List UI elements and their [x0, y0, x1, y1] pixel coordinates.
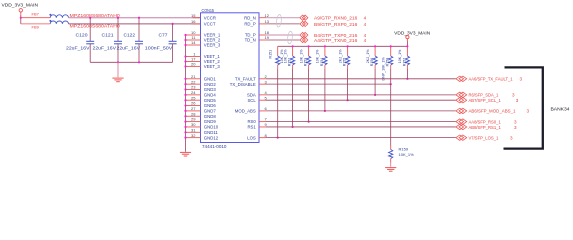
diff pair symbol (RX) — [276, 14, 282, 27]
node rail junction R153 — [308, 45, 310, 47]
svg-text:AB6/SFP_MOD_ABS_1: AB6/SFP_MOD_ABS_1 — [469, 109, 516, 114]
port SFP_RS1_1 — [456, 124, 467, 129]
node R156 bottom junction — [374, 94, 376, 96]
svg-text:GND8: GND8 — [204, 114, 217, 119]
node R154 bottom junction — [324, 110, 326, 112]
pin 11 VEER_2 — [186, 35, 221, 43]
svg-text:19: 19 — [265, 35, 270, 40]
svg-text:GND3: GND3 — [204, 87, 217, 92]
pin 14 VEER_3 — [186, 40, 221, 48]
pin 26 GND6 — [186, 101, 217, 109]
node bus junction VEET_2 — [184, 60, 186, 62]
svg-text:3: 3 — [527, 109, 530, 114]
wire pull-up rail — [278, 45, 408, 47]
pin 23 GND3 — [186, 85, 217, 93]
port SFP_LOS_1 — [456, 135, 467, 140]
ferrite bead FB7 — [32, 12, 69, 18]
svg-text:31: 31 — [191, 127, 196, 132]
wire SFP_TX_DISABLE rail — [266, 83, 391, 85]
svg-text:VEET_3: VEET_3 — [204, 64, 221, 69]
node bus junction VEET_3 — [184, 65, 186, 67]
svg-text:23: 23 — [191, 85, 196, 90]
svg-text:10K_1%: 10K_1% — [399, 152, 415, 157]
wire capacitor ground bus — [90, 61, 172, 63]
svg-text:C120: C120 — [76, 32, 89, 37]
node bus junction VEER_2 — [184, 39, 186, 41]
svg-text:4: 4 — [364, 38, 367, 43]
svg-text:3: 3 — [516, 98, 519, 103]
svg-text:AB8/SFP_RS1_1: AB8/SFP_RS1_1 — [469, 125, 502, 130]
resistor R155 2K2_1% pull-up — [338, 46, 349, 100]
pin 29 GND9 — [186, 117, 217, 125]
svg-text:13: 13 — [265, 19, 270, 24]
svg-text:3: 3 — [512, 93, 515, 98]
node bus junction GND4 — [184, 94, 186, 96]
pin 8 LOS — [247, 133, 267, 141]
svg-text:R157: R157 — [402, 58, 406, 67]
power flag VDD_3V3_MAIN (right) — [394, 30, 430, 41]
pin 20 VEET_3 — [186, 62, 221, 70]
resistor R158 DNP_10K_1% pull-up — [381, 46, 392, 84]
svg-text:29: 29 — [191, 117, 196, 122]
port SFP_TX_FAULT_1 — [456, 76, 467, 81]
svg-text:74441-0010: 74441-0010 — [202, 144, 227, 149]
port SFP_SCL_1 — [456, 98, 467, 103]
svg-text:BANK34: BANK34 — [551, 107, 570, 113]
wire VEE/GND bus — [185, 35, 187, 152]
wire SFP_MOD_ABS_1 rail — [266, 110, 456, 112]
pin 1 VEET_1 — [186, 52, 221, 60]
svg-text:R159: R159 — [399, 146, 409, 151]
pin 12 RD_N — [244, 13, 270, 21]
ground (R159) — [385, 163, 396, 172]
svg-text:26: 26 — [191, 101, 196, 106]
node bus junction VEET_1 — [184, 55, 186, 57]
svg-text:4: 4 — [364, 22, 367, 27]
node rail junction R154 — [324, 45, 326, 47]
diff pair symbol (TX) — [287, 31, 293, 44]
svg-text:SDA: SDA — [247, 92, 256, 97]
svg-text:VDD_3V3_MAIN: VDD_3V3_MAIN — [394, 30, 430, 35]
svg-text:R154: R154 — [320, 58, 324, 67]
pin 32 GND12 — [186, 133, 219, 141]
node R152 bottom junction — [292, 126, 294, 128]
svg-text:CON15: CON15 — [202, 8, 215, 13]
node bus junction GND6 — [184, 104, 186, 106]
svg-text:AA6/SFP_TX_FAULT_1: AA6/SFP_TX_FAULT_1 — [469, 77, 513, 82]
svg-text:R158: R158 — [386, 58, 390, 67]
pin 31 GND11 — [186, 127, 219, 135]
svg-text:A9/GTP_RXN0_216: A9/GTP_RXN0_216 — [314, 16, 358, 21]
svg-text:C122: C122 — [124, 32, 136, 37]
node R153 bottom junction — [308, 121, 310, 123]
svg-text:GND11: GND11 — [204, 130, 219, 135]
svg-text:22uF_16V: 22uF_16V — [66, 45, 90, 50]
node R157 bottom junction — [406, 78, 408, 80]
node bus junction VEER_3 — [184, 44, 186, 46]
pin 19 TD_N — [245, 35, 270, 43]
svg-text:20: 20 — [191, 62, 196, 67]
pin 7 RS0 — [247, 117, 267, 125]
pin 27 GND7 — [186, 106, 217, 114]
svg-text:C77: C77 — [159, 32, 169, 37]
pin 4 SDA — [247, 90, 268, 98]
svg-text:10K_1%: 10K_1% — [299, 49, 303, 63]
node rail junction R156 — [374, 45, 376, 47]
svg-text:SCL: SCL — [247, 98, 256, 103]
pin 15 VCCR — [191, 13, 216, 21]
node rail junction R155 — [347, 45, 349, 47]
svg-text:R152: R152 — [288, 58, 292, 67]
pin 21 GND1 — [186, 74, 217, 82]
svg-text:DNP_10K_1%: DNP_10K_1% — [381, 57, 385, 81]
pin 5 SCL — [247, 95, 267, 103]
svg-text:24: 24 — [191, 90, 196, 95]
svg-text:10K_1%: 10K_1% — [316, 49, 320, 63]
svg-text:3: 3 — [520, 77, 523, 82]
pin 25 GND5 — [186, 95, 217, 103]
wire SFP_RS0_1 rail — [266, 121, 456, 123]
port GTP_RXP0_216 — [300, 21, 308, 26]
node R151 bottom junction — [277, 137, 279, 139]
node VDD junction — [20, 17, 22, 19]
node bus junction C121 — [117, 61, 119, 63]
ferrite bead FB9 — [32, 20, 69, 30]
svg-text:100nF_50V: 100nF_50V — [145, 45, 173, 50]
svg-text:V7/SFP_LOS_1: V7/SFP_LOS_1 — [469, 135, 499, 140]
svg-text:GND10: GND10 — [204, 125, 219, 130]
svg-text:2K2_1%: 2K2_1% — [338, 49, 342, 63]
capacitor C77 — [145, 23, 177, 63]
svg-text:TD_N: TD_N — [245, 38, 256, 43]
svg-text:GND2: GND2 — [204, 82, 217, 87]
pin 2 TX_FAULT — [235, 74, 268, 82]
svg-text:GND7: GND7 — [204, 109, 217, 114]
resistor R152 10K_1% pull-up — [283, 46, 294, 127]
svg-text:22: 22 — [191, 79, 196, 84]
svg-text:27: 27 — [191, 106, 196, 111]
node R158 bottom junction — [390, 83, 392, 85]
svg-text:22uF_16V: 22uF_16V — [117, 45, 141, 50]
svg-text:VCCR: VCCR — [204, 15, 216, 20]
svg-text:GND9: GND9 — [204, 119, 217, 124]
node bus junction GND7 — [184, 110, 186, 112]
capacitor C120 — [66, 17, 94, 63]
svg-text:21: 21 — [191, 74, 196, 79]
port SFP_SDA_1 — [456, 92, 467, 97]
svg-text:R153: R153 — [304, 58, 308, 67]
svg-text:VEER_3: VEER_3 — [204, 43, 221, 48]
connector CON15 box — [201, 13, 260, 143]
wire SFP_TX_FAULT_1 rail — [266, 78, 456, 80]
node bus junction GND2 — [184, 83, 186, 85]
svg-text:TX_FAULT: TX_FAULT — [235, 76, 256, 81]
svg-text:30: 30 — [191, 122, 196, 127]
resistor R154 10K_1% pull-up — [316, 46, 327, 111]
svg-text:RD_P: RD_P — [244, 22, 256, 27]
pin 17 VEET_2 — [186, 57, 221, 65]
wire RD_P to port — [266, 23, 300, 25]
pin 28 GND8 — [186, 111, 217, 119]
svg-text:AB7/SFP_SCL_1: AB7/SFP_SCL_1 — [469, 98, 502, 103]
svg-text:R156: R156 — [370, 58, 374, 67]
node bus junction GND5 — [184, 99, 186, 101]
port SFP_MOD_ABS_1 — [456, 108, 467, 113]
svg-text:28: 28 — [191, 111, 196, 116]
node rail junction R152 — [292, 45, 294, 47]
pin 18 TD_P — [245, 30, 270, 38]
pin 22 GND2 — [186, 79, 217, 87]
node bus junction GND10 — [184, 126, 186, 128]
pin 10 VEER_1 — [186, 30, 221, 38]
node bus junction GND12 — [184, 137, 186, 139]
svg-text:25: 25 — [191, 95, 196, 100]
node rail junction R158 — [390, 45, 392, 47]
node bus junction GND1 — [184, 78, 186, 80]
node bus junction VEER_1 — [184, 34, 186, 36]
port SFP_RS0_1 — [456, 119, 467, 124]
wire VDD to FB7 — [21, 17, 50, 19]
FPGA bank bracket BANK34 — [504, 67, 543, 148]
pin 30 GND10 — [186, 122, 219, 130]
svg-text:GND5: GND5 — [204, 98, 217, 103]
svg-text:32: 32 — [191, 133, 196, 138]
svg-text:TX_DISABLE: TX_DISABLE — [230, 82, 256, 87]
ground (capacitor bank) — [112, 62, 123, 81]
svg-text:RS1: RS1 — [247, 125, 256, 130]
ground (CON15 VEE bus) — [180, 152, 191, 156]
wire SFP_SDA_1 rail — [266, 94, 456, 96]
resistor R153 10K_1% pull-up — [299, 46, 310, 121]
node bus junction GND9 — [184, 121, 186, 123]
svg-text:VDD_3V3_MAIN: VDD_3V3_MAIN — [2, 3, 39, 8]
svg-text:2K2_1%: 2K2_1% — [366, 49, 370, 63]
svg-text:A4/GTP_TXN0_216: A4/GTP_TXN0_216 — [314, 38, 358, 43]
svg-text:MOD_ABS: MOD_ABS — [235, 109, 256, 114]
resistor R156 2K2_1% pull-up — [366, 46, 377, 95]
power flag VDD_3V3_MAIN (left) — [2, 3, 39, 15]
node R155 bottom junction — [347, 99, 349, 101]
svg-text:22uF_16V: 22uF_16V — [93, 45, 117, 50]
wire VDD stem to rail — [406, 42, 408, 47]
port GTP_TXP0_216 — [300, 32, 308, 37]
svg-text:12: 12 — [265, 13, 270, 18]
svg-text:10K_1%: 10K_1% — [283, 49, 287, 63]
capacitor C121 — [93, 17, 123, 63]
svg-text:3: 3 — [514, 119, 517, 124]
node bus junction GND8 — [184, 115, 186, 117]
svg-text:15: 15 — [191, 13, 196, 18]
wire VDD to FB9 — [21, 23, 50, 25]
capacitor C122 — [117, 17, 144, 63]
pin 3 TX_DISABLE — [230, 79, 268, 87]
wire SFP_RS1_1 rail — [266, 126, 456, 128]
svg-text:FB9: FB9 — [32, 25, 40, 30]
svg-text:4: 4 — [364, 16, 367, 21]
pin 6 MOD_ABS — [235, 106, 268, 114]
svg-text:GND1: GND1 — [204, 76, 217, 81]
svg-text:10K_1%: 10K_1% — [398, 49, 402, 63]
svg-text:3: 3 — [514, 125, 517, 130]
port GTP_TXN0_216 — [300, 37, 308, 42]
svg-text:LOS: LOS — [247, 135, 256, 140]
svg-text:FB7: FB7 — [32, 12, 40, 17]
svg-text:14: 14 — [191, 40, 196, 45]
svg-text:B9/GTP_RXP0_216: B9/GTP_RXP0_216 — [314, 22, 358, 27]
pin 9 RS1 — [247, 122, 267, 130]
wire VCCR net to CON15 pin 15 — [69, 17, 201, 19]
svg-text:RD_N: RD_N — [244, 15, 256, 20]
node rail junction R157 — [406, 45, 408, 47]
svg-text:MPZ1608S680ATAH0: MPZ1608S680ATAH0 — [70, 24, 121, 29]
wire SFP_LOS_1 rail — [266, 137, 456, 139]
svg-text:GND4: GND4 — [204, 92, 217, 97]
wire VCCT net to CON15 pin 16 — [69, 23, 201, 25]
wire TD_P to port — [266, 34, 300, 36]
svg-text:C121: C121 — [102, 32, 115, 37]
resistor R159 10K_1% pulldown — [389, 84, 414, 162]
svg-text:R155: R155 — [343, 58, 347, 67]
pin 13 RD_P — [244, 19, 269, 27]
node bus junction GND11 — [184, 131, 186, 133]
svg-text:VCCT: VCCT — [204, 22, 216, 27]
port GTP_RXN0_216 — [300, 15, 308, 20]
svg-text:GND12: GND12 — [204, 135, 219, 140]
wire SFP_SCL_1 rail — [266, 99, 456, 101]
wire VDD stem — [20, 15, 22, 24]
node bus junction C122 — [138, 61, 140, 63]
wire RD_N to port — [266, 17, 300, 19]
svg-text:R151: R151 — [269, 50, 273, 59]
pin 24 GND4 — [186, 90, 217, 98]
wire TD_N to port — [266, 39, 300, 41]
svg-text:RS0: RS0 — [247, 119, 256, 124]
svg-text:R6/SFP_SDA_1: R6/SFP_SDA_1 — [469, 93, 499, 98]
node bus junction GND3 — [184, 88, 186, 90]
pin 16 VCCT — [191, 19, 216, 27]
resistor R151 10K_1% pull-up — [269, 46, 285, 137]
svg-text:16: 16 — [191, 19, 196, 24]
svg-text:AA8/SFP_RS0_1: AA8/SFP_RS0_1 — [469, 119, 502, 124]
svg-text:3: 3 — [510, 135, 513, 140]
svg-text:GND6: GND6 — [204, 103, 217, 108]
resistor R157 10K_1% pull-up — [398, 46, 409, 79]
